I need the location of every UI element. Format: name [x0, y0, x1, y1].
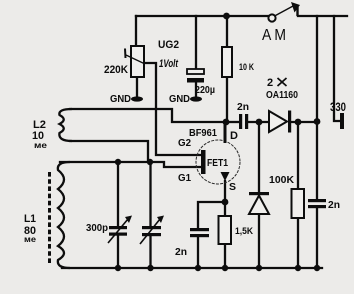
node top rail / 10K: [223, 13, 230, 20]
inductor L2: [59, 109, 72, 141]
svg-text:GND: GND: [169, 93, 190, 105]
node detector line end: [314, 118, 321, 125]
wire 100K branch upper: [297, 122, 299, 189]
wire 10K top lead: [226, 16, 228, 47]
node D2 bottom: [256, 265, 262, 271]
capacitor 330 antenna: [340, 113, 344, 129]
svg-text:220µ: 220µ: [195, 84, 215, 96]
svg-text:BF961: BF961: [189, 128, 217, 139]
wire pot wiper to G2: [144, 63, 200, 155]
wire bottom ground rail: [62, 267, 322, 269]
capacitor 220u electrolytic: [187, 69, 204, 74]
wire 330 cap branch: [334, 16, 339, 121]
wire L1 top lead to G1: [60, 162, 200, 167]
node 100K top: [295, 119, 302, 126]
diode D1 OA1160: [269, 111, 287, 132]
ground pot: [131, 96, 143, 101]
potentiometer wiper arrow: [126, 55, 144, 64]
wire tuning cap C2 top lead: [149, 162, 151, 226]
capacitor 2n coupling (drain): [239, 114, 242, 129]
svg-text:A M: A M: [262, 27, 286, 44]
wire 220u cap top lead: [195, 16, 197, 69]
inductor L1: [58, 162, 70, 268]
node right rail bottom: [314, 265, 320, 271]
tuning capacitor C2: [142, 226, 161, 229]
transistor gate bar: [201, 150, 206, 174]
switch AM: [268, 14, 275, 21]
svg-text:G1: G1: [178, 172, 191, 184]
potentiometer 220K body: [131, 46, 144, 77]
svg-text:ме: ме: [24, 235, 37, 244]
wire source node to 2n bypass cap: [198, 202, 225, 228]
node C1 bottom: [115, 265, 121, 271]
wire right vertical from top rail: [316, 16, 318, 199]
wire tuning cap C1 bottom lead: [117, 236, 119, 268]
resistor 1.5K body: [219, 216, 232, 244]
node C2 bottom: [147, 265, 153, 271]
svg-text:G2: G2: [178, 137, 191, 149]
transistor FET1 BF961 circle: [196, 140, 240, 184]
svg-text:1,5K: 1,5K: [235, 226, 253, 237]
transistor drain lead: [224, 122, 227, 143]
node D2 top: [256, 119, 263, 126]
svg-text:L1: L1: [24, 213, 36, 225]
wire 220u bottom lead: [195, 82, 197, 96]
wire top supply rail left of switch: [136, 15, 268, 17]
node 2n bypass bottom: [195, 265, 201, 271]
svg-text:1Volt: 1Volt: [159, 58, 179, 70]
wire right vertical below 2n cap: [316, 208, 318, 268]
wire pot top lead: [135, 16, 137, 46]
node 100K bottom: [295, 265, 301, 271]
svg-text:2n: 2n: [237, 101, 249, 113]
svg-text:D: D: [230, 130, 238, 142]
resistor 10K body: [222, 47, 232, 77]
svg-text:ме: ме: [34, 141, 48, 150]
svg-text:UG2: UG2: [158, 39, 179, 51]
wire source to 1.5K: [224, 181, 226, 216]
node C1 top: [115, 159, 121, 165]
wire pot bottom lead: [136, 77, 138, 96]
svg-text:100K: 100K: [269, 175, 295, 186]
tuning capacitor C1 300p: [109, 226, 127, 229]
wire 2n bypass cap bottom lead: [197, 237, 199, 268]
capacitor 2n source bypass: [190, 228, 209, 231]
svg-text:2n: 2n: [175, 246, 187, 258]
node source junction: [222, 199, 229, 206]
svg-text:330: 330: [330, 102, 346, 114]
svg-text:2n: 2n: [328, 199, 340, 211]
svg-text:GND: GND: [110, 93, 131, 105]
ferrite core dashed line: [48, 172, 51, 263]
wire 100K branch lower: [297, 218, 299, 268]
resistor 100K body: [292, 189, 305, 218]
wire L2 top lead to drain node: [70, 109, 225, 122]
svg-text:OA1160: OA1160: [266, 90, 298, 101]
node 1.5K bottom: [222, 265, 228, 271]
svg-text:FET1: FET1: [207, 157, 228, 169]
svg-text:10 K: 10 K: [239, 62, 254, 72]
node C2 top: [147, 159, 153, 165]
transistor source arrow: [221, 172, 230, 181]
diode D2 OA1160: [249, 192, 269, 195]
node drain junction: [223, 119, 230, 126]
wire 2n cap to diode D1 anode: [249, 121, 269, 123]
svg-text:2: 2: [267, 77, 273, 89]
svg-text:300p: 300p: [86, 222, 108, 234]
ground 220u: [190, 96, 202, 101]
wire L2 bottom lead down to tank node: [70, 141, 148, 161]
wire D1 cathode to detector line end: [291, 121, 317, 123]
wire tuning cap C2 bottom lead: [149, 236, 151, 268]
wire top rail right of switch: [298, 15, 347, 17]
wire D2 branch upper: [258, 122, 260, 192]
svg-text:220K: 220K: [104, 64, 128, 76]
wire D2 branch lower: [258, 214, 260, 268]
svg-text:S: S: [229, 181, 236, 193]
wire tuning cap C1 top lead: [117, 162, 119, 226]
wire 1.5K bottom lead: [224, 244, 226, 268]
wire 10K bottom lead to drain node: [226, 77, 228, 122]
wire drain node to 2n coupling cap: [226, 121, 238, 123]
capacitor 2n right: [308, 199, 326, 202]
